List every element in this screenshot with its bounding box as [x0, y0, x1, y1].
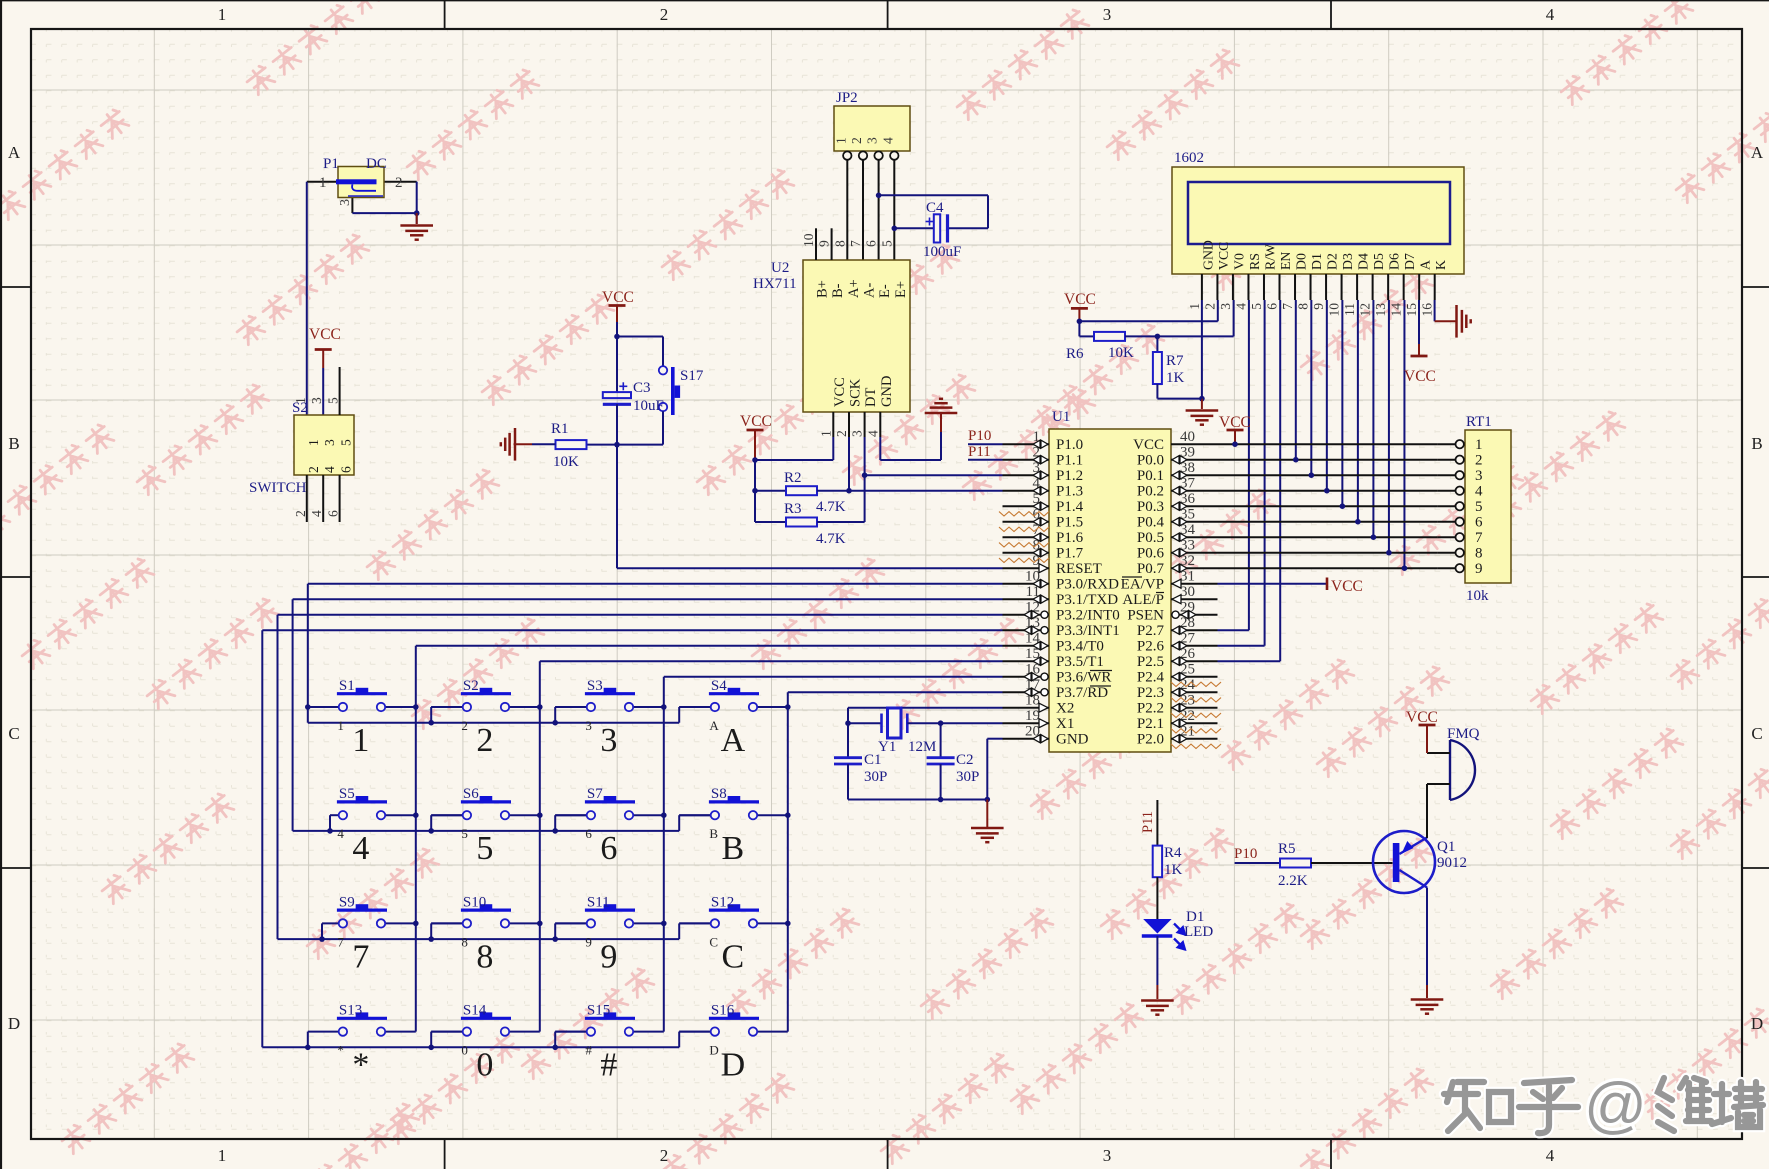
- button S7: [555, 786, 664, 867]
- svg-text:8: 8: [476, 938, 493, 975]
- svg-text:2: 2: [306, 466, 321, 473]
- junction dot C2 ground bus: [938, 797, 944, 803]
- wire 1602 D0 to P0.0 bus: [1295, 300, 1297, 460]
- wire R7 bottom to GND net: [1156, 384, 1158, 399]
- keypad col4 junction dots: [785, 704, 791, 710]
- ground symbol LED: [1141, 1001, 1174, 1015]
- svg-text:DC: DC: [366, 156, 387, 172]
- svg-text:B-: B-: [830, 283, 846, 298]
- LED D1: [1142, 909, 1214, 949]
- svg-text:A: A: [1751, 143, 1764, 162]
- svg-text:LED: LED: [1184, 924, 1213, 940]
- junction dot crystal left: [845, 720, 851, 726]
- svg-text:1: 1: [1187, 303, 1202, 310]
- button S17: [659, 366, 704, 415]
- svg-text:D: D: [721, 1047, 746, 1084]
- svg-text:16: 16: [1420, 303, 1435, 317]
- svg-text:X1: X1: [1056, 716, 1074, 732]
- svg-text:2: 2: [395, 175, 403, 191]
- power VCC at S2 pin3: [322, 368, 324, 415]
- svg-text:1: 1: [833, 137, 848, 144]
- svg-text:S16: S16: [711, 1003, 735, 1019]
- wire crystal ground bus: [848, 799, 987, 801]
- wire 1602 GND pin1: [1201, 300, 1203, 399]
- svg-text:8: 8: [461, 934, 468, 949]
- wire R5 to Q1 base: [1311, 862, 1393, 864]
- wire VCC node down to R2/R3: [754, 460, 756, 522]
- svg-text:0: 0: [461, 1043, 468, 1058]
- junction dot GND pin bus: [985, 797, 991, 803]
- button S8: [679, 786, 788, 867]
- svg-text:C: C: [8, 724, 19, 743]
- resistor R6: [1066, 321, 1134, 362]
- svg-text:31: 31: [1180, 569, 1195, 585]
- junction dot VCC/R6: [1077, 319, 1083, 325]
- svg-text:3: 3: [322, 439, 337, 446]
- svg-text:C: C: [1751, 724, 1762, 743]
- power VCC for U2: [747, 429, 764, 432]
- svg-text:3: 3: [585, 718, 592, 733]
- svg-text:R7: R7: [1166, 353, 1184, 369]
- svg-text:VCC: VCC: [832, 377, 848, 407]
- buzzer FMQ: [1427, 726, 1480, 800]
- ground symbol above U2 GND wire: [940, 414, 942, 432]
- svg-text:VCC: VCC: [1406, 709, 1438, 726]
- svg-text:P3.5/T1: P3.5/T1: [1056, 654, 1104, 670]
- button S13: [308, 1003, 416, 1084]
- wire X1 to crystal: [941, 722, 1003, 724]
- svg-text:9012: 9012: [1437, 855, 1467, 871]
- svg-text:2: 2: [1475, 453, 1483, 469]
- ground symbol left of R1: [514, 443, 533, 445]
- svg-text:D0: D0: [1294, 253, 1309, 270]
- wire U1 P3.7 keypad col4: [788, 691, 1003, 693]
- svg-text:1: 1: [306, 439, 321, 446]
- wire 1602 D6 to P0.6 bus: [1388, 300, 1390, 553]
- keypad row2 bus wire: [292, 830, 294, 832]
- svg-text:D: D: [1751, 1014, 1763, 1033]
- no-connect marks U1 P2.0-P2.4: [1171, 682, 1221, 686]
- capacitor C4: [879, 195, 988, 260]
- wire 1602 D5 to P0.5 bus: [1372, 300, 1374, 537]
- resistor R1: [551, 421, 587, 470]
- svg-text:P1.5: P1.5: [1056, 515, 1083, 531]
- svg-text:P2.2: P2.2: [1137, 701, 1164, 717]
- svg-text:P1: P1: [323, 156, 339, 172]
- button S9: [322, 894, 416, 975]
- svg-text:14: 14: [1389, 303, 1404, 317]
- button S10: [431, 894, 540, 975]
- wire U1 P0.7 to RT1 pin9: [1218, 567, 1438, 569]
- svg-text:U1: U1: [1052, 409, 1070, 425]
- svg-text:4: 4: [1546, 5, 1555, 24]
- svg-text:P0.5: P0.5: [1137, 530, 1164, 546]
- svg-text:EA/VP: EA/VP: [1121, 577, 1164, 593]
- svg-text:P2.3: P2.3: [1137, 685, 1164, 701]
- wire U2 DT pin3: [864, 412, 866, 437]
- svg-text:VCC: VCC: [1331, 578, 1363, 595]
- svg-text:C2: C2: [956, 752, 974, 768]
- svg-text:EN: EN: [1278, 252, 1293, 270]
- svg-text:4: 4: [1546, 1146, 1555, 1165]
- capacitor C3: [603, 337, 664, 415]
- wire U1 P3.6 keypad col3: [664, 676, 1003, 678]
- svg-text:S17: S17: [680, 368, 704, 384]
- svg-text:HX711: HX711: [753, 276, 797, 292]
- power VCC at 1602 A pin15: [1418, 300, 1420, 344]
- svg-text:P2.7: P2.7: [1137, 623, 1165, 639]
- svg-text:19: 19: [1025, 708, 1040, 724]
- svg-text:A: A: [709, 718, 719, 733]
- svg-text:P2.4: P2.4: [1137, 670, 1165, 686]
- svg-text:P1.3: P1.3: [1056, 484, 1083, 500]
- svg-text:9: 9: [585, 934, 592, 949]
- svg-text:GND: GND: [879, 376, 895, 407]
- svg-text:3: 3: [1218, 303, 1233, 310]
- svg-text:RESET: RESET: [1056, 561, 1102, 577]
- wire P1 pin3 to ground node: [351, 198, 353, 214]
- svg-text:P0.1: P0.1: [1137, 468, 1164, 484]
- ground symbol crystal: [986, 800, 988, 828]
- svg-text:10: 10: [801, 233, 816, 247]
- svg-text:FMQ: FMQ: [1447, 726, 1480, 742]
- wire U1 P0.0 to RT1 pin2: [1218, 459, 1438, 461]
- wire U1 P3.5 keypad col2: [540, 660, 1003, 662]
- junction dot D0/P0.0: [1293, 457, 1299, 463]
- svg-text:S12: S12: [711, 894, 734, 910]
- svg-text:B: B: [1751, 434, 1762, 453]
- wire 1602 VCC pin2: [1217, 300, 1219, 321]
- junction dot reset VCC node: [614, 334, 620, 340]
- svg-text:ALE/P: ALE/P: [1122, 592, 1164, 608]
- svg-text:P11: P11: [968, 444, 991, 460]
- svg-text:P0.2: P0.2: [1137, 484, 1164, 500]
- svg-text:S7: S7: [587, 786, 603, 802]
- svg-text:2.2K: 2.2K: [1278, 873, 1308, 889]
- svg-text:B: B: [722, 830, 745, 867]
- svg-text:8: 8: [832, 240, 847, 247]
- svg-text:1: 1: [818, 430, 833, 437]
- svg-text:4: 4: [309, 510, 324, 517]
- svg-text:9: 9: [1475, 561, 1483, 577]
- wire U1 P0.6 to RT1 pin8: [1218, 552, 1438, 554]
- svg-text:5: 5: [879, 240, 894, 247]
- net label P11 at U1 P1.1: [968, 459, 1003, 461]
- svg-text:R2: R2: [784, 470, 802, 486]
- zhihu watermark logo (decorative): [1444, 1071, 1763, 1140]
- wire U1 VCC pin40 to RT1 pin1: [1218, 443, 1438, 445]
- power VCC at buzzer: [1419, 724, 1436, 727]
- resistor R3: [755, 501, 846, 547]
- wire 1602 D2 to P0.2 bus: [1326, 300, 1328, 491]
- svg-text:P1.1: P1.1: [1056, 453, 1083, 469]
- wire 1602 D3 to P0.3 bus: [1341, 300, 1343, 506]
- svg-text:VCC: VCC: [740, 413, 772, 430]
- svg-text:R5: R5: [1278, 841, 1296, 857]
- svg-text:15: 15: [1404, 303, 1419, 317]
- svg-text:3: 3: [850, 430, 865, 437]
- svg-text:S11: S11: [587, 894, 610, 910]
- svg-text:*: *: [337, 1043, 344, 1058]
- wire U1 GND pin20: [987, 738, 1002, 740]
- svg-text:D: D: [8, 1014, 20, 1033]
- svg-text:VCC: VCC: [1404, 368, 1436, 385]
- keypad row1 bus wire: [307, 707, 309, 723]
- svg-text:R/W: R/W: [1262, 244, 1277, 270]
- svg-text:18: 18: [1025, 693, 1040, 709]
- svg-text:2: 2: [849, 137, 864, 144]
- svg-text:10k: 10k: [1466, 588, 1489, 604]
- svg-text:P3.3/INT1: P3.3/INT1: [1056, 623, 1120, 639]
- capacitor C1: [834, 723, 887, 799]
- svg-text:3: 3: [309, 397, 324, 404]
- svg-text:VCC: VCC: [1064, 291, 1096, 308]
- wire P10 to R5: [1235, 862, 1280, 864]
- svg-text:D6: D6: [1387, 253, 1402, 270]
- svg-text:U2: U2: [771, 260, 789, 276]
- connector P1 (DC jack): [319, 156, 403, 206]
- wire U1 P0.5 to RT1 pin7: [1218, 536, 1438, 538]
- svg-text:5: 5: [476, 830, 493, 867]
- junction dot U2 VCC node: [752, 457, 758, 463]
- svg-text:1602: 1602: [1174, 150, 1204, 166]
- svg-text:10K: 10K: [553, 454, 579, 470]
- svg-text:C4: C4: [926, 200, 944, 216]
- wire 1602 D4 to P0.4 bus: [1357, 300, 1359, 522]
- junction dot D6/P0.6: [1386, 550, 1392, 556]
- svg-text:R4: R4: [1164, 845, 1182, 861]
- button S16: [679, 1003, 788, 1084]
- svg-text:P1.6: P1.6: [1056, 530, 1084, 546]
- svg-text:S14: S14: [463, 1003, 487, 1019]
- ground symbol 1602: [1201, 399, 1203, 409]
- svg-text:10uF: 10uF: [633, 398, 664, 414]
- button S6: [431, 786, 540, 867]
- svg-text:A-: A-: [862, 283, 878, 298]
- svg-text:4.7K: 4.7K: [816, 531, 846, 547]
- svg-text:6: 6: [600, 830, 617, 867]
- svg-text:8: 8: [1475, 546, 1483, 562]
- svg-text:3: 3: [1103, 1146, 1112, 1165]
- resistor network RT1: [1438, 414, 1511, 604]
- wire R3 to DT: [817, 521, 865, 523]
- wire U1 P0.4 to RT1 pin6: [1218, 521, 1438, 523]
- svg-text:R1: R1: [551, 421, 569, 437]
- button S5: [330, 786, 416, 867]
- junction dot R2 VCC branch: [752, 488, 758, 494]
- svg-text:P0.3: P0.3: [1137, 499, 1164, 515]
- svg-text:P2.0: P2.0: [1137, 732, 1164, 748]
- wire U1 P3.1 keypad row2: [293, 598, 1003, 600]
- svg-text:7: 7: [1280, 303, 1295, 310]
- svg-text:D1: D1: [1186, 909, 1204, 925]
- button S4: [679, 678, 788, 759]
- svg-text:P0.0: P0.0: [1137, 453, 1164, 469]
- wire U2 VCC pin1: [832, 412, 834, 437]
- capacitor C2: [927, 723, 980, 799]
- resistor R2: [755, 470, 846, 515]
- svg-text:6: 6: [1265, 303, 1280, 310]
- svg-text:GND: GND: [1056, 732, 1089, 748]
- svg-text:9: 9: [600, 938, 617, 975]
- svg-text:S5: S5: [339, 786, 355, 802]
- svg-text:S15: S15: [587, 1003, 610, 1019]
- svg-text:1: 1: [1475, 437, 1483, 453]
- svg-text:4: 4: [1475, 484, 1483, 500]
- svg-text:7: 7: [1475, 530, 1483, 546]
- resistor R4: [1153, 845, 1183, 878]
- svg-text:3: 3: [865, 137, 880, 144]
- wire P1 pin2 to ground node: [384, 181, 417, 183]
- svg-text:P11: P11: [1140, 811, 1156, 833]
- keypad row4 bus wire: [261, 1046, 263, 1048]
- LCD module 1602: [1172, 150, 1464, 317]
- ground symbol Q1: [1411, 1000, 1444, 1014]
- svg-text:S4: S4: [711, 678, 727, 694]
- svg-text:C3: C3: [633, 380, 651, 396]
- svg-text:5: 5: [1475, 499, 1483, 515]
- junction dot R7/GND: [1199, 396, 1205, 402]
- svg-text:P3.1/TXD: P3.1/TXD: [1056, 592, 1118, 608]
- svg-text:P3.4/T0: P3.4/T0: [1056, 639, 1104, 655]
- wire R6 to V0: [1125, 335, 1234, 337]
- svg-text:P2.1: P2.1: [1137, 716, 1164, 732]
- svg-text:B: B: [8, 434, 19, 453]
- svg-text:R6: R6: [1066, 346, 1084, 362]
- power VCC at U1 pin40: [1227, 429, 1244, 432]
- svg-text:4: 4: [322, 466, 337, 473]
- svg-text:D7: D7: [1402, 253, 1417, 270]
- svg-text:1: 1: [293, 397, 308, 404]
- svg-text:12M: 12M: [908, 739, 936, 755]
- svg-text:B: B: [709, 826, 718, 841]
- crystal Y1: [848, 708, 941, 755]
- wire P11 to R4: [1156, 800, 1158, 846]
- transistor Q1 (9012 PNP): [1373, 831, 1467, 893]
- wire 1602 RS pin4 to U1 P2.7: [1248, 300, 1250, 630]
- wire VCC node to S17: [617, 336, 663, 338]
- wire U1 P0.2 to RT1 pin4: [1218, 490, 1438, 492]
- wire P1 pin1 to S2 pin1: [307, 181, 338, 183]
- ground symbol below P1: [416, 213, 418, 224]
- svg-text:P10: P10: [968, 428, 991, 444]
- svg-text:D: D: [709, 1043, 718, 1058]
- junction dot DT / P1.2 net: [862, 472, 868, 478]
- switch S2: [249, 367, 354, 522]
- svg-text:E-: E-: [877, 284, 893, 298]
- svg-text:RS: RS: [1247, 253, 1262, 270]
- svg-text:5: 5: [1249, 303, 1264, 310]
- svg-text:4: 4: [1233, 303, 1248, 310]
- svg-text:7: 7: [848, 240, 863, 247]
- svg-text:1: 1: [319, 175, 327, 191]
- svg-text:P1.7: P1.7: [1056, 546, 1084, 562]
- svg-text:9: 9: [1311, 303, 1326, 310]
- wire 1602 D1 to P0.1 bus: [1310, 300, 1312, 475]
- svg-text:4.7K: 4.7K: [816, 499, 846, 515]
- svg-text:S10: S10: [463, 894, 486, 910]
- no-connect marks U1 P1.4-P1.7: [999, 512, 1049, 516]
- power VCC at R6: [1071, 307, 1088, 310]
- wire U1 P3.4 keypad col1: [416, 645, 1003, 647]
- wire S17 to reset node: [662, 411, 664, 444]
- wire U1 P3.3 keypad row4: [262, 629, 1002, 631]
- svg-text:1K: 1K: [1166, 370, 1185, 386]
- svg-text:S6: S6: [463, 786, 479, 802]
- wire DT to U1 P1.2: [865, 474, 1003, 476]
- svg-text:6: 6: [585, 826, 592, 841]
- net label VCC at U1 EA/VP: [1218, 583, 1328, 585]
- wire U1 P0.3 to RT1 pin5: [1218, 505, 1438, 507]
- svg-text:2: 2: [660, 1146, 669, 1165]
- svg-text:VCC: VCC: [1133, 437, 1164, 453]
- svg-text:PSEN: PSEN: [1127, 608, 1164, 624]
- junction dot D7/P0.7: [1402, 565, 1408, 571]
- svg-text:7: 7: [352, 938, 369, 975]
- junction dot R7 top: [1155, 334, 1161, 340]
- button S2: [431, 678, 540, 759]
- svg-text:6: 6: [326, 510, 341, 517]
- wire reset node to U1 RESET: [616, 404, 618, 568]
- svg-text:*: *: [352, 1047, 369, 1084]
- button S1: [308, 678, 416, 759]
- wire U1 P0.1 to RT1 pin3: [1218, 474, 1438, 476]
- svg-text:VCC: VCC: [602, 289, 634, 306]
- svg-text:30P: 30P: [864, 769, 887, 785]
- wire U2 GND pin4: [879, 412, 881, 437]
- svg-text:C: C: [709, 934, 718, 949]
- svg-text:3: 3: [600, 722, 617, 759]
- svg-text:9: 9: [817, 240, 832, 247]
- keypad col1 junction dots: [413, 704, 419, 710]
- svg-text:0: 0: [476, 1047, 493, 1084]
- IC U2 HX711: [753, 228, 910, 437]
- svg-text:P2.6: P2.6: [1137, 639, 1165, 655]
- svg-text:P3.6/WR: P3.6/WR: [1056, 670, 1111, 686]
- keypad row3 bus wire: [277, 938, 279, 940]
- svg-text:S3: S3: [587, 678, 603, 694]
- svg-text:D4: D4: [1356, 253, 1371, 270]
- junction dot pin40 VCC: [1232, 441, 1238, 447]
- button S3: [555, 678, 664, 759]
- wire R2 to U1 P1.3: [817, 490, 1003, 492]
- svg-text:P0.7: P0.7: [1137, 561, 1165, 577]
- svg-text:VCC: VCC: [309, 326, 341, 343]
- svg-text:4: 4: [352, 830, 369, 867]
- svg-text:5: 5: [326, 397, 341, 404]
- ground at 1602 K pin16: [1434, 300, 1436, 321]
- junction dot D2/P0.2: [1324, 488, 1330, 494]
- svg-text:10K: 10K: [1108, 345, 1134, 361]
- junction dot P1 ground node: [414, 210, 420, 216]
- svg-text:2: 2: [660, 5, 669, 24]
- svg-text:#: #: [585, 1043, 592, 1058]
- junction dot JP2 pin3 / C4: [876, 193, 882, 199]
- svg-text:2: 2: [1202, 303, 1217, 310]
- svg-text:X2: X2: [1056, 701, 1074, 717]
- svg-text:P10: P10: [1234, 846, 1257, 862]
- svg-text:D1: D1: [1309, 253, 1324, 270]
- svg-text:10: 10: [1327, 303, 1342, 317]
- wire 1602 R/W pin5 to U1 P2.6: [1264, 300, 1266, 646]
- svg-text:E+: E+: [893, 281, 909, 298]
- svg-text:P3.0/RXD: P3.0/RXD: [1056, 577, 1119, 593]
- svg-text:S1: S1: [339, 678, 355, 694]
- resistor R5: [1278, 841, 1311, 889]
- svg-text:40: 40: [1180, 429, 1195, 445]
- svg-text:D3: D3: [1340, 253, 1355, 270]
- keypad col2 junction dots: [537, 704, 543, 710]
